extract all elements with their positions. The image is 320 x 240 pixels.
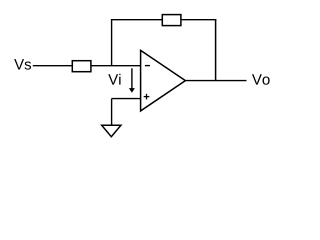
ground bbox=[102, 125, 121, 136]
resistor Rin bbox=[72, 61, 91, 72]
wire non-inverting input to ground branch bbox=[112, 98, 140, 100]
pin label plus (non-inverting input) bbox=[144, 94, 150, 100]
pin label minus (inverting input) bbox=[145, 65, 150, 67]
op-amp U1 bbox=[141, 50, 186, 111]
label Vi bbox=[108, 74, 120, 85]
wire output to Vo bbox=[185, 80, 246, 82]
resistor Rf (feedback) bbox=[162, 15, 181, 26]
wire Rin to inverting input bbox=[91, 65, 140, 67]
node A junction (inverting input node) bbox=[111, 20, 113, 66]
wire Vs to Rin bbox=[33, 65, 73, 67]
wire feedback down to output node bbox=[215, 19, 217, 81]
wire down to ground bbox=[111, 99, 113, 126]
label Vo bbox=[252, 74, 270, 84]
wire Rf to output branch bbox=[181, 19, 216, 21]
wire node A to Rf bbox=[111, 19, 162, 21]
label Vs bbox=[14, 59, 31, 69]
Vi arrow bbox=[129, 68, 135, 93]
